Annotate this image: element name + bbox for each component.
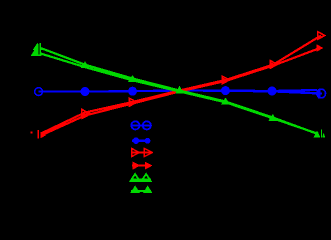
legend entry 1: blue open circles xyxy=(131,121,151,129)
green filled triangle markers G2 xyxy=(33,43,321,138)
legend entry 5: green open triangles xyxy=(131,174,151,181)
green left cluster wedge xyxy=(32,43,38,54)
green right open-triangle piece xyxy=(322,133,325,138)
green error bar left xyxy=(40,43,42,55)
green right cluster gap xyxy=(319,129,322,138)
green open triangle markers G1 xyxy=(32,49,40,55)
legend entry 3: red open triangles xyxy=(131,148,152,156)
blue open circle markers B1 xyxy=(35,88,326,98)
legend entry 2: blue filled circles xyxy=(132,138,150,144)
red open triangle markers R1 xyxy=(82,32,325,117)
red filled triangle markers R2 xyxy=(40,44,323,138)
red series R1 (open triangles) line xyxy=(41,36,321,134)
red tiny dot left xyxy=(31,132,33,134)
blue series B1 (open circles) line xyxy=(39,91,322,94)
green series G2 (filled triangles) line xyxy=(37,47,317,134)
blue series B2 (filled circles) line xyxy=(85,90,317,92)
green left cluster gap xyxy=(39,43,40,55)
legend entry 4: red filled triangles xyxy=(132,162,153,170)
red series R2 (filled triangles) line xyxy=(42,48,320,135)
green error bar right xyxy=(321,129,322,137)
red error bar left xyxy=(38,130,40,138)
legend entry 6: green filled triangles xyxy=(130,185,152,193)
blue filled circle markers B2 xyxy=(81,86,277,96)
green series G1 (open triangles) line xyxy=(36,52,318,134)
blue error bar right xyxy=(318,89,320,99)
